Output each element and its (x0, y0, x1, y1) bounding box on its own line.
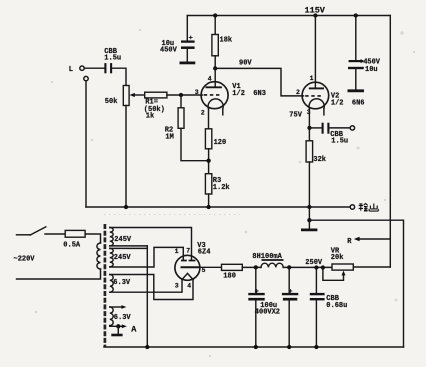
resistor R1 (50k) 1k grid stopper (145, 92, 167, 98)
wire pot wiper arrow to R1 (134, 94, 145, 96)
capacitor C 10u +450V right electrolytic (355, 16, 357, 61)
svg-text:50k: 50k (105, 98, 118, 106)
terminal R input lower (84, 76, 88, 80)
wire V3 cathode to 180 (200, 266, 222, 268)
potentiometer VR 20k (332, 264, 353, 270)
tube V1 cathode arc (208, 99, 223, 109)
node dots on ground rail (124, 205, 128, 209)
wire R input down to ground rail (85, 81, 87, 207)
wire V2 cathode stub (323, 109, 325, 115)
wire 245V-1 bottom lead to center tap (110, 245, 148, 247)
svg-text:~220V: ~220V (14, 256, 36, 264)
svg-text:0.68u: 0.68u (326, 302, 347, 310)
resistor 120 cathode (205, 129, 211, 149)
svg-text:120: 120 (214, 139, 227, 147)
svg-text:5: 5 (202, 267, 206, 274)
tube V3 6Z4 envelope (175, 255, 200, 280)
svg-text:A: A (131, 324, 137, 334)
tube V1 1/2 6N3 envelope (201, 82, 228, 109)
wire R2 bottom to cathode junction (181, 128, 209, 160)
wire B+ top rail 115V (187, 15, 390, 17)
capacitor CBB 1.5u input (104, 63, 106, 73)
resistor R2 1M grid leak (180, 95, 182, 108)
transformer T1 core (104, 224, 107, 347)
node V2 cathode junction (307, 126, 311, 130)
ground symbol heater center (117, 326, 119, 333)
tube V2 cathode arc (309, 99, 324, 109)
svg-text:20k: 20k (331, 254, 344, 262)
svg-text:L: L (69, 66, 73, 74)
wire 6.3V-1 bottom lead to pin3 (110, 280, 182, 293)
wire HV center tap to ground rail (146, 246, 148, 347)
capacitor 100u 400V first (255, 267, 257, 292)
node 90V junction (213, 66, 217, 70)
svg-text:400VX2: 400VX2 (255, 309, 280, 317)
wire ground loop to bottom right (309, 220, 403, 347)
svg-text:1M: 1M (165, 133, 173, 141)
svg-text:2: 2 (296, 89, 300, 96)
svg-text:6Z4: 6Z4 (198, 249, 211, 257)
svg-text:1: 1 (175, 248, 179, 255)
wire 32k to ground rail (308, 162, 310, 207)
svg-text:245V: 245V (114, 254, 132, 262)
wire V1 anode to V2 grid coupling (215, 68, 303, 96)
svg-text:245V: 245V (114, 236, 132, 244)
svg-text:450V: 450V (160, 47, 178, 55)
wire ground rail (86, 206, 350, 208)
svg-text:1: 1 (310, 75, 314, 82)
transformer secondary 6.3V winding 2 (110, 307, 113, 326)
wire L input to coupling cap (84, 67, 104, 69)
wire cap to 50k pot top (112, 68, 126, 85)
wire VR wiper arrow loop (323, 268, 344, 281)
wire V1 plate lead (214, 68, 216, 86)
svg-text:3: 3 (195, 89, 199, 96)
transformer secondary 245V winding 2 (110, 248, 113, 266)
node cathode/R3 junction (206, 159, 210, 163)
svg-text:4: 4 (208, 75, 212, 82)
wire bottom ground rail (104, 346, 404, 348)
label shuchu output glyphs (359, 204, 379, 212)
wire 245V-1 top lead to pin7 (110, 228, 192, 260)
transformer secondary 245V winding 1 (110, 228, 113, 246)
wire mains bottom (17, 269, 101, 279)
svg-text:2: 2 (201, 110, 205, 117)
svg-text:180: 180 (223, 273, 236, 281)
faint scan artifact dotted line (104, 214, 240, 216)
fuse 0.5A (45, 234, 101, 243)
svg-text:0.5A: 0.5A (63, 242, 81, 250)
svg-text:6.3V: 6.3V (114, 314, 132, 322)
svg-text:7: 7 (186, 248, 190, 255)
wire V1 cathode to 120 (208, 109, 210, 129)
junction dot 450V cap top (354, 13, 358, 17)
wire R3 to ground rail (208, 194, 210, 207)
transformer T1 primary winding (97, 243, 101, 269)
node R1/R2 junction (179, 93, 183, 97)
capacitor 100u 400V second (288, 267, 290, 292)
tube V2 grid dashed (305, 95, 322, 97)
scan speckles (35, 29, 416, 357)
capacitor CBB 1.5u output (310, 127, 322, 129)
svg-text:10u: 10u (365, 66, 378, 74)
svg-text:3: 3 (175, 283, 179, 290)
wire 6.3V-2 top arrow heater feed (110, 306, 122, 308)
tube V3 heater (182, 273, 193, 279)
tube V3 cathode bar (181, 266, 200, 268)
svg-text:1/2 6N6: 1/2 6N6 (331, 100, 365, 108)
wire 6.3V-2 bottom arrow with node A (110, 325, 123, 328)
wire pot bottom to ground rail (125, 106, 127, 208)
wire 245V-2 top lead (110, 247, 148, 249)
svg-text:32k: 32k (313, 156, 326, 164)
wire V2 cathode down (308, 109, 310, 141)
svg-text:R: R (347, 238, 352, 246)
wire 180 to choke (242, 266, 261, 268)
junction dot 18k top (213, 13, 217, 17)
tube V2 plate bar (309, 87, 324, 89)
tube V2 1/2 6N6 envelope (302, 82, 329, 109)
switch mains (17, 234, 31, 236)
svg-text:1/2 6N3: 1/2 6N3 (232, 90, 266, 98)
ground symbol below output (308, 220, 310, 228)
capacitor C 10u 450V left electrolytic (186, 16, 188, 41)
wire 245V-2 bottom lead to pin1 (110, 247, 184, 267)
wire right column from rail to VR pot (389, 16, 391, 268)
wire V1 cathode stub (222, 109, 224, 115)
svg-text:75V: 75V (289, 112, 302, 120)
wire output ground branch down (308, 207, 310, 220)
wire R1 to V1 grid (167, 94, 203, 96)
tube V3 plate bars (181, 260, 195, 262)
inductor choke 8H100mA (261, 263, 283, 267)
wire 6.3V-1 top lead to pin4 (110, 275, 193, 300)
resistor 180 filter (222, 264, 243, 270)
transformer secondary 6.3V winding 1 (110, 275, 113, 293)
svg-text:1.5u: 1.5u (331, 138, 348, 146)
svg-text:6.3V: 6.3V (113, 279, 131, 287)
capacitor CBB 0.68u (315, 268, 317, 293)
svg-text:1.5u: 1.5u (104, 55, 121, 63)
junction dot V2 plate top (313, 13, 317, 17)
potentiometer 50k volume (123, 86, 129, 106)
tube V1 grid dashed (204, 94, 222, 96)
svg-text:4: 4 (187, 283, 191, 290)
wire V2 plate lead from rail (314, 16, 316, 88)
terminal output cap right (350, 126, 354, 130)
tube V1 plate bar (206, 86, 222, 88)
node R (to right channel) arrow (358, 238, 390, 240)
resistor 18k (214, 16, 216, 35)
resistor R3 1.2k (205, 174, 211, 194)
svg-text:8H100mA: 8H100mA (252, 253, 282, 261)
svg-text:1.2k: 1.2k (213, 184, 230, 192)
ground bar under right 450V cap (348, 89, 365, 92)
svg-text:250V: 250V (305, 259, 323, 267)
wire VR right terminal feed (353, 266, 390, 268)
ground bar under left 10u cap (180, 62, 196, 65)
terminal output (shuchu) (350, 205, 354, 209)
wire choke to VR pot 250V rail (283, 266, 332, 268)
svg-text:18k: 18k (220, 37, 233, 45)
svg-text:90V: 90V (239, 60, 252, 68)
resistor 32k cathode V2 (306, 141, 313, 162)
svg-text:1k: 1k (146, 112, 154, 120)
